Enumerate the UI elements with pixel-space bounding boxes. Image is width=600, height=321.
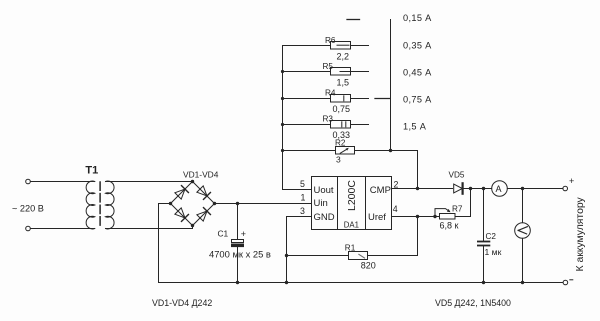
svg-text:Т1: Т1 [85,165,98,177]
svg-text:A: A [496,184,502,194]
svg-text:VD5: VD5 [449,171,465,180]
svg-text:0,75: 0,75 [333,104,351,114]
svg-text:2: 2 [394,180,399,190]
svg-text:3: 3 [300,206,305,216]
svg-text:0,15 А: 0,15 А [403,13,432,23]
svg-text:+: + [569,176,574,186]
svg-text:CMP: CMP [370,185,391,196]
svg-text:0,75 А: 0,75 А [403,94,432,104]
svg-text:4700 мк х 25 в: 4700 мк х 25 в [209,248,271,259]
svg-text:L200C: L200C [346,180,358,211]
svg-text:R3: R3 [323,115,334,124]
svg-text:Uin: Uin [314,198,328,209]
svg-text:R5: R5 [323,62,334,71]
svg-text:R4: R4 [325,88,336,97]
svg-text:Uout: Uout [314,185,334,196]
svg-text:VD1-VD4: VD1-VD4 [183,169,219,179]
svg-text:К аккумулятору: К аккумулятору [575,196,586,271]
svg-text:DA1: DA1 [344,221,359,230]
svg-text:4: 4 [393,204,398,214]
svg-text:820: 820 [361,260,376,270]
svg-text:GND: GND [314,212,335,223]
svg-text:3: 3 [336,155,341,165]
svg-text:R1: R1 [345,244,356,253]
svg-text:Uref: Uref [368,212,386,223]
svg-text:C2: C2 [486,232,497,241]
svg-text:R7: R7 [452,204,463,213]
svg-text:C1: C1 [218,229,229,239]
svg-text:5: 5 [300,179,305,189]
svg-text:R6: R6 [325,36,336,45]
svg-text:0,45 А: 0,45 А [403,67,432,77]
svg-text:6,8 к: 6,8 к [440,220,459,230]
svg-text:1,5 А: 1,5 А [403,121,427,131]
svg-text:VD1-VD4 Д242: VD1-VD4 Д242 [152,298,212,308]
svg-text:+: + [241,229,246,239]
svg-text:1: 1 [301,193,306,203]
svg-text:0,35 А: 0,35 А [403,40,432,50]
svg-text:~ 220 В: ~ 220 В [12,204,44,214]
svg-text:1 мк: 1 мк [485,247,502,257]
svg-text:0,33: 0,33 [333,130,351,140]
svg-text:2,2: 2,2 [337,51,350,61]
svg-text:1,5: 1,5 [337,77,350,87]
svg-text:VD5 Д242, 1N5400: VD5 Д242, 1N5400 [435,298,511,308]
